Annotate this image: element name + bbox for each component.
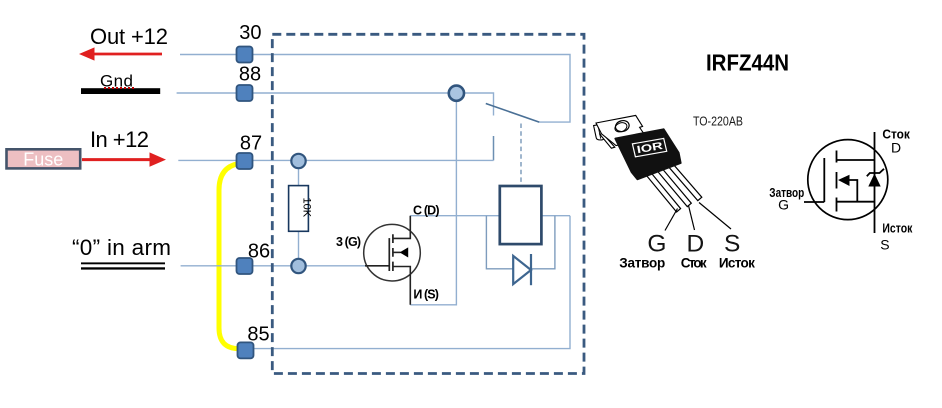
Q2 body zener diode: [868, 174, 880, 187]
wire resistor bottom lead: [298, 231, 300, 266]
wire mechanical link (dashed): [520, 124, 522, 187]
transistor Q1 MOSFET circle: [364, 224, 421, 281]
wire node-to-source vertical: [410, 93, 456, 305]
package leg D: [655, 165, 691, 207]
svg-text:S: S: [724, 231, 740, 258]
node on 87 wire: [291, 154, 305, 168]
Q1 channel segments: [392, 234, 394, 271]
svg-text:85: 85: [247, 324, 269, 346]
relay coil: [500, 186, 542, 244]
svg-text:Fuse: Fuse: [23, 149, 63, 169]
wire resistor top lead: [298, 161, 300, 186]
pointer line D: [689, 206, 695, 231]
terminal square 30: [237, 47, 253, 63]
svg-text:Затвор: Затвор: [619, 255, 665, 270]
svg-text:In +12: In +12: [90, 127, 149, 152]
svg-text:3 (G): 3 (G): [336, 235, 361, 249]
svg-text:D: D: [891, 139, 901, 155]
Q1 source stub: [393, 267, 410, 305]
wire coil right: [541, 215, 570, 217]
transistor symbol Q2 (IRFZ44N internal): [804, 132, 888, 233]
Q2 drain stub: [837, 159, 875, 161]
Q2 main vertical (drain-source): [874, 132, 876, 233]
Q2 gate bar: [823, 158, 825, 202]
svg-text:S: S: [880, 237, 889, 253]
svg-text:88: 88: [239, 64, 261, 86]
wire diode loop: [486, 216, 555, 269]
svg-text:G: G: [778, 197, 789, 213]
package leg S: [665, 159, 702, 200]
svg-text:IRFZ44N: IRFZ44N: [706, 50, 789, 76]
pointer line S: [699, 203, 731, 230]
Q2 gate lead: [804, 201, 824, 203]
svg-text:И (S): И (S): [413, 288, 439, 302]
ground bar: [81, 88, 160, 94]
svg-text:Сток: Сток: [681, 255, 707, 270]
svg-text:Out +12: Out +12: [90, 24, 168, 49]
double underline: [81, 262, 165, 264]
svg-text:“0” in arm: “0” in arm: [72, 235, 171, 260]
arrow in (red, right): [82, 152, 166, 166]
flyback diode D1: [513, 254, 531, 285]
node on 88 wire: [449, 86, 464, 101]
svg-text:Исток: Исток: [719, 255, 755, 270]
terminal square 88: [237, 85, 253, 101]
package body: [615, 129, 680, 179]
fuse box: [7, 149, 81, 169]
wire yellow jumper 87-85: [219, 164, 239, 349]
svg-text:C (D): C (D): [413, 203, 440, 217]
package tab: [596, 115, 648, 145]
package IOR logo: [632, 138, 666, 156]
Q2 body arrow: [838, 175, 850, 186]
node on 86 wire: [291, 259, 305, 273]
switch arm: [486, 104, 539, 123]
Q2 circle: [808, 140, 888, 220]
resistor R 10K: [289, 186, 313, 232]
svg-text:10K: 10K: [301, 198, 313, 218]
wire 30 rail: [180, 55, 570, 123]
pointer line G: [665, 209, 678, 231]
package leg G: [645, 170, 681, 212]
Q1 drain stub: [393, 216, 410, 239]
wire drain to coil: [410, 215, 500, 217]
terminal square 87: [237, 153, 253, 169]
package tab side strip: [600, 134, 615, 149]
TO-220 package drawing: [594, 115, 731, 230]
package tab ear: [594, 124, 604, 140]
terminal square 86: [237, 258, 253, 274]
Q1 gate lead: [365, 265, 389, 267]
svg-text:87: 87: [240, 133, 262, 155]
svg-text:Исток: Исток: [882, 221, 912, 236]
svg-text:G: G: [647, 231, 666, 258]
svg-text:86: 86: [248, 241, 270, 263]
spellcheck squiggle: [104, 87, 134, 89]
relay enclosure dashed box: [272, 34, 584, 373]
wire 86 rail: [181, 265, 365, 267]
wire 88 rail: [177, 93, 494, 116]
Q1 body arrow: [393, 251, 401, 253]
wire 85 rail: [253, 216, 570, 349]
arrow out (red, left): [79, 47, 162, 60]
wire switch fixed contact: [493, 136, 495, 160]
svg-text:TO-220AB: TO-220AB: [693, 115, 743, 129]
Q2 channel segments: [836, 151, 838, 212]
svg-text:30: 30: [239, 22, 261, 44]
package tab hole: [614, 119, 630, 133]
wire 87 rail: [178, 159, 493, 161]
Q1 gate bar: [388, 238, 390, 271]
svg-text:D: D: [687, 230, 705, 257]
Q2 source stub: [837, 201, 875, 203]
terminal square 85: [238, 342, 254, 358]
